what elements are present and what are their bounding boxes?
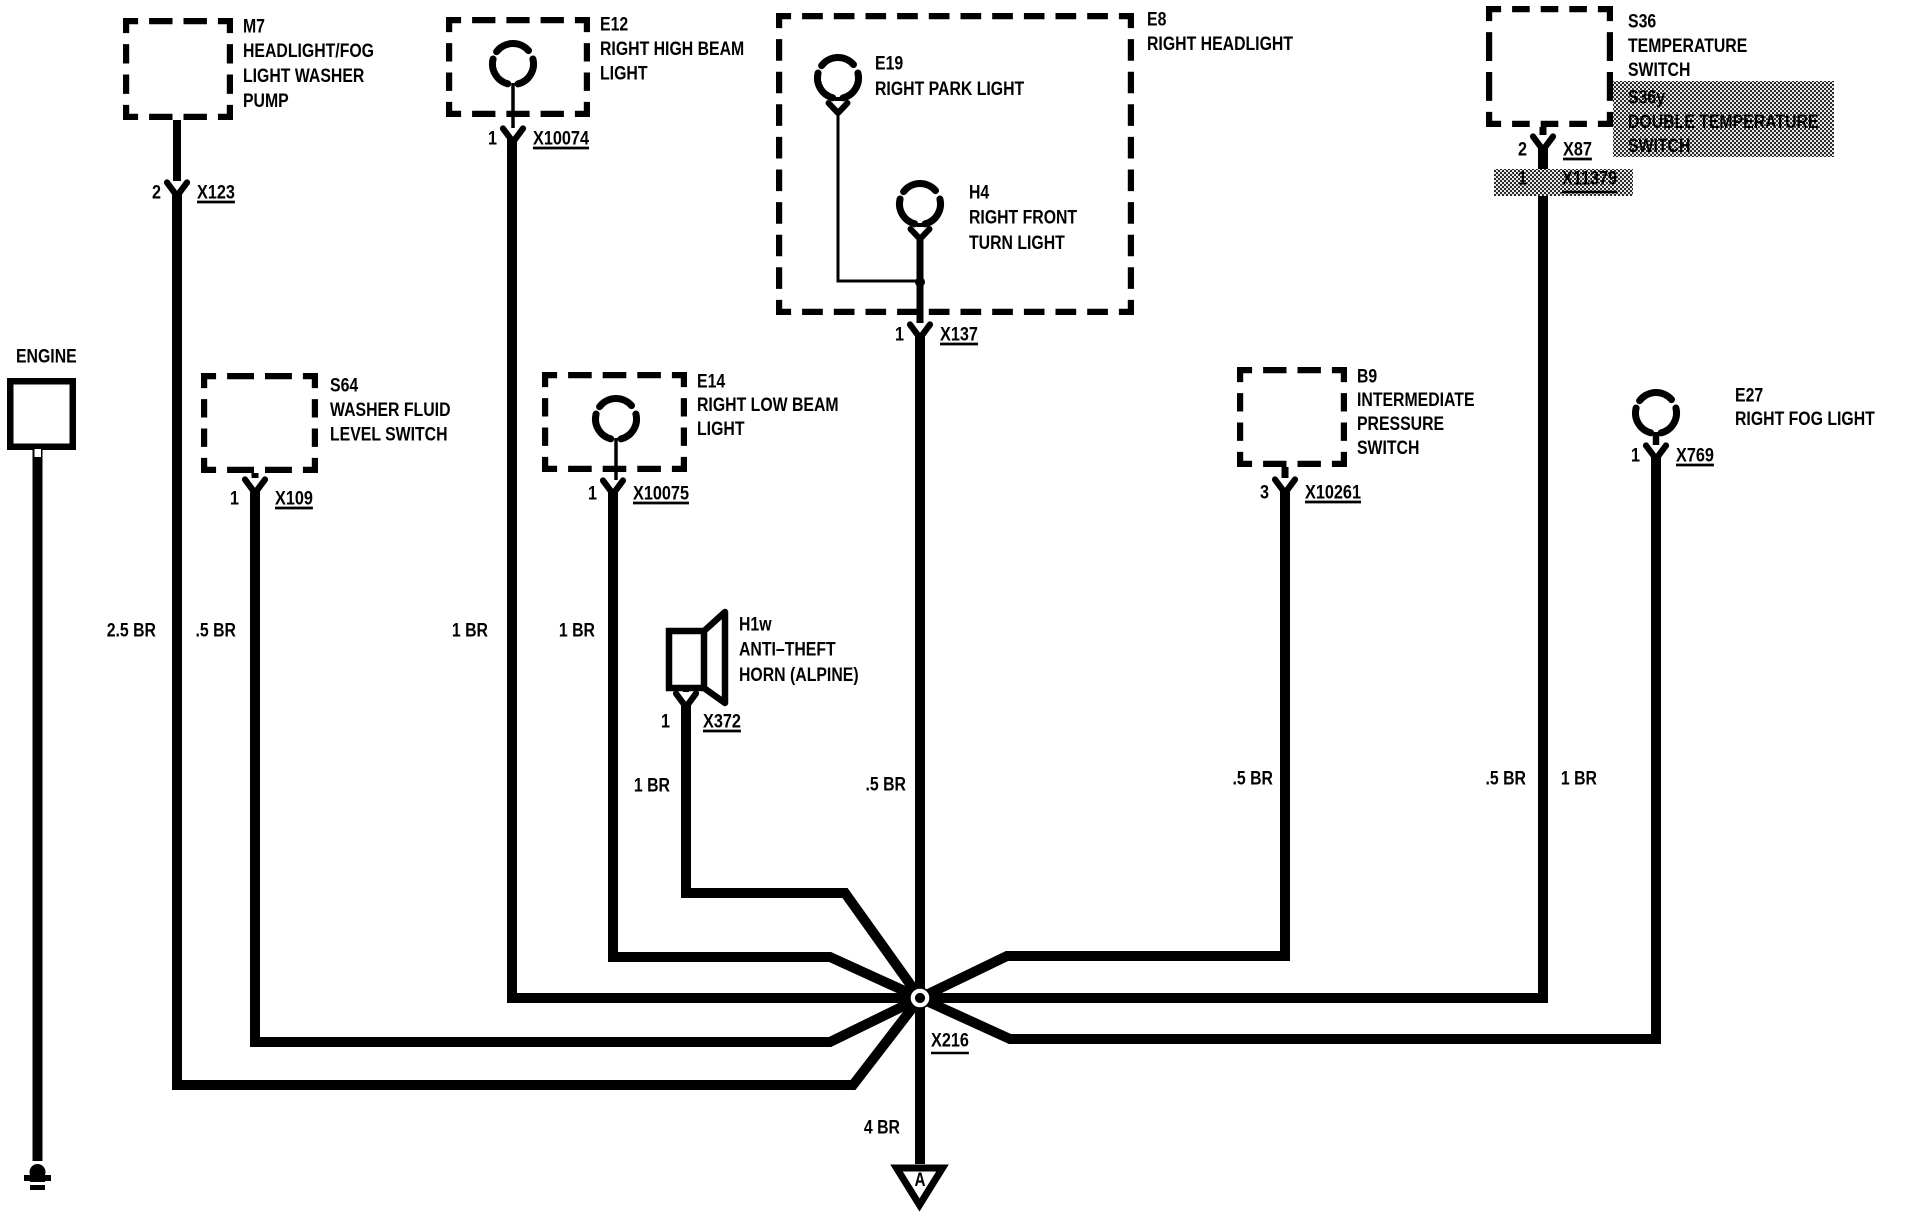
lamp E12 right high beam bulb [492, 44, 533, 84]
wire E14 bulb stem [614, 438, 618, 480]
svg-text:1: 1 [1518, 168, 1527, 189]
svg-text:1 BR: 1 BR [452, 620, 488, 641]
wire E12 high beam to X216 (1 BR) [512, 139, 920, 998]
svg-text:HORN (ALPINE): HORN (ALPINE) [739, 665, 859, 686]
svg-text:LIGHT WASHER: LIGHT WASHER [243, 66, 365, 87]
svg-text:RIGHT FOG LIGHT: RIGHT FOG LIGHT [1735, 409, 1875, 430]
label E8 right headlight [1147, 9, 1293, 55]
wire E19 to H4 stem (thin) [838, 111, 918, 281]
svg-text:E27: E27 [1735, 385, 1763, 406]
svg-text:RIGHT PARK LIGHT: RIGHT PARK LIGHT [875, 79, 1025, 100]
svg-text:H1w: H1w [739, 614, 772, 635]
svg-text:ENGINE: ENGINE [16, 346, 77, 367]
wire label 1 BR (E27) [1561, 768, 1597, 789]
svg-text:S36: S36 [1628, 11, 1656, 32]
wire label 1 BR (E14) [559, 620, 595, 641]
lamp H4 right front turn light bulb [899, 184, 940, 224]
component box E8 right headlight (dashed) [779, 16, 1131, 312]
wire E27 fog light to X216 (1 BR) [920, 456, 1656, 1039]
wire E8 headlight to X216 and ground triangle (.5 BR / 4 BR) [915, 335, 925, 1164]
svg-text:LEVEL SWITCH: LEVEL SWITCH [330, 425, 448, 446]
svg-text:X10074: X10074 [533, 128, 589, 149]
wire H4 to X137 [917, 237, 924, 323]
svg-text:SWITCH: SWITCH [1357, 438, 1419, 459]
component box S36 (dashed) [1489, 9, 1610, 124]
svg-text:B9: B9 [1357, 366, 1377, 387]
svg-text:X769: X769 [1676, 445, 1714, 466]
wire stub S64 to X109 [252, 473, 259, 478]
svg-text:1: 1 [588, 483, 597, 504]
svg-text:1: 1 [895, 324, 904, 345]
wire stub M7 to X123 [173, 120, 181, 181]
svg-text:ANTI–THEFT: ANTI–THEFT [739, 640, 836, 661]
svg-text:X216: X216 [931, 1030, 969, 1051]
svg-text:SWITCH: SWITCH [1628, 60, 1690, 81]
wire E19 bulb stem [835, 97, 841, 101]
svg-text:DOUBLE TEMPERATURE: DOUBLE TEMPERATURE [1628, 112, 1819, 133]
svg-text:1 BR: 1 BR [634, 775, 670, 796]
highlight block S36y double temperature switch [1613, 81, 1834, 157]
svg-text:S64: S64 [330, 375, 359, 396]
svg-text:LIGHT: LIGHT [697, 419, 745, 440]
wire label .5 BR (S64) [196, 620, 237, 641]
svg-text:1: 1 [661, 711, 670, 732]
component box B9 (dashed) [1240, 370, 1344, 464]
svg-text:E19: E19 [875, 53, 903, 74]
svg-text:RIGHT HIGH BEAM: RIGHT HIGH BEAM [600, 39, 744, 60]
lamp E27 right fog light bulb [1635, 393, 1676, 433]
svg-text:1: 1 [230, 488, 239, 509]
connector X11379 pin 1 (highlighted) [1518, 168, 1617, 192]
label E12 right high beam light [600, 14, 744, 84]
wire stub B9 to X10261 [1282, 467, 1289, 478]
svg-text:X87: X87 [1563, 139, 1592, 160]
component box M7 (dashed) [126, 21, 230, 117]
wire label 1 BR (E12) [452, 620, 488, 641]
wire label 2.5 BR [107, 620, 157, 641]
label S64 washer fluid level switch [330, 375, 451, 445]
ground triangle A [897, 1168, 943, 1205]
svg-text:2: 2 [152, 182, 161, 203]
connector X87 pin 2 [1518, 137, 1592, 161]
label E19 right park light [875, 53, 1025, 100]
connector X123 pin 2 [152, 182, 235, 203]
wire E14 low beam to X216 (1 BR) [613, 491, 920, 998]
connector X137 pin 1 [895, 324, 978, 345]
svg-text:X137: X137 [940, 324, 978, 345]
svg-text:TURN LIGHT: TURN LIGHT [969, 233, 1065, 254]
svg-text:LIGHT: LIGHT [600, 64, 648, 85]
wire M7 pump to X216 (2.5 BR) [177, 193, 920, 1085]
component box S64 (dashed) [204, 376, 315, 470]
svg-text:3: 3 [1260, 482, 1269, 503]
svg-text:RIGHT LOW BEAM: RIGHT LOW BEAM [697, 395, 839, 416]
wire H1w stem [683, 688, 689, 692]
svg-text:PRESSURE: PRESSURE [1357, 414, 1444, 435]
svg-text:1 BR: 1 BR [1561, 768, 1597, 789]
connector X10075 pin 1 [588, 481, 689, 505]
junction dot inside E8 [915, 277, 925, 287]
wire S36 switch to X216 (.5 BR) [920, 147, 1543, 998]
connector arrow H4 socket [911, 229, 930, 239]
wire H4 bulb stem [917, 223, 923, 227]
lamp E19 right park light bulb [817, 58, 858, 98]
svg-text:PUMP: PUMP [243, 91, 289, 112]
svg-text:X372: X372 [703, 711, 741, 732]
svg-text:WASHER FLUID: WASHER FLUID [330, 400, 451, 421]
label E14 right low beam light [697, 371, 839, 440]
horn H1w speaker symbol [669, 612, 725, 703]
label ENGINE [16, 346, 77, 367]
label E27 right fog light [1735, 385, 1875, 430]
label X216 [931, 1030, 969, 1053]
component box E14 (dashed) [545, 375, 684, 469]
wire B9 switch to X216 (.5 BR) [920, 490, 1285, 998]
svg-text:.5 BR: .5 BR [196, 620, 237, 641]
wire label 1 BR (H1w) [634, 775, 670, 796]
svg-text:.5 BR: .5 BR [1486, 768, 1527, 789]
wire label .5 BR (B9) [1233, 768, 1274, 789]
svg-text:4 BR: 4 BR [864, 1117, 900, 1138]
svg-text:.5 BR: .5 BR [1233, 768, 1274, 789]
connector arrow E19 socket [829, 103, 848, 113]
wire label .5 BR (E8) [866, 774, 907, 795]
svg-text:RIGHT FRONT: RIGHT FRONT [969, 208, 1077, 229]
wire label .5 BR (S36) [1486, 768, 1527, 789]
label M7 headlight/fog light washer pump [243, 16, 374, 111]
svg-text:SWITCH: SWITCH [1628, 136, 1690, 157]
svg-text:E14: E14 [697, 371, 726, 392]
connector X769 pin 1 [1631, 445, 1714, 466]
svg-text:2: 2 [1518, 139, 1527, 160]
label S36y double temperature switch (highlighted) [1628, 87, 1819, 157]
label S36 temperature switch [1628, 11, 1747, 81]
label B9 intermediate pressure switch [1357, 366, 1475, 458]
svg-text:X123: X123 [197, 182, 235, 203]
svg-text:X10075: X10075 [633, 483, 689, 504]
svg-text:2.5 BR: 2.5 BR [107, 620, 157, 641]
label H1w anti-theft horn [739, 614, 859, 685]
ground G104 symbol [24, 1164, 51, 1188]
wire label 4 BR [864, 1117, 900, 1138]
svg-text:E8: E8 [1147, 9, 1166, 30]
junction node X216 [909, 987, 931, 1009]
svg-text:A: A [915, 1170, 926, 1191]
svg-text:1: 1 [1631, 445, 1640, 466]
svg-text:HEADLIGHT/FOG: HEADLIGHT/FOG [243, 41, 374, 62]
svg-text:INTERMEDIATE: INTERMEDIATE [1357, 390, 1475, 411]
svg-text:TEMPERATURE: TEMPERATURE [1628, 36, 1747, 57]
connector X109 pin 1 [230, 480, 313, 510]
wire E12 bulb stem [511, 83, 515, 128]
svg-text:1: 1 [488, 128, 497, 149]
svg-text:X10261: X10261 [1305, 482, 1361, 503]
wire E27 bulb stem [1653, 432, 1660, 445]
connector X10261 pin 3 [1260, 480, 1361, 504]
highlight block connector X11379 [1494, 169, 1633, 196]
svg-text:E12: E12 [600, 14, 628, 35]
label H4 right front turn light [969, 182, 1077, 254]
svg-text:S36y: S36y [1628, 87, 1665, 108]
connector X372 pin 1 [661, 694, 741, 733]
svg-text:1 BR: 1 BR [559, 620, 595, 641]
connector X10074 pin 1 [488, 128, 589, 149]
svg-text:H4: H4 [969, 182, 990, 203]
component box E12 (dashed) [449, 20, 587, 114]
svg-text:M7: M7 [243, 16, 265, 37]
lamp E14 right low beam bulb [595, 399, 636, 439]
engine block symbol [10, 381, 73, 447]
svg-text:X109: X109 [275, 488, 313, 509]
wire S64 switch to X216 (.5 BR) [255, 490, 920, 1042]
svg-text:.5 BR: .5 BR [866, 774, 907, 795]
svg-text:X11379: X11379 [1562, 168, 1617, 189]
wire engine ground strap [33, 447, 43, 1161]
wire H1w horn to X216 (1 BR) [686, 704, 920, 998]
svg-text:RIGHT HEADLIGHT: RIGHT HEADLIGHT [1147, 34, 1293, 55]
wire stub S36 to X87 [1540, 127, 1547, 135]
